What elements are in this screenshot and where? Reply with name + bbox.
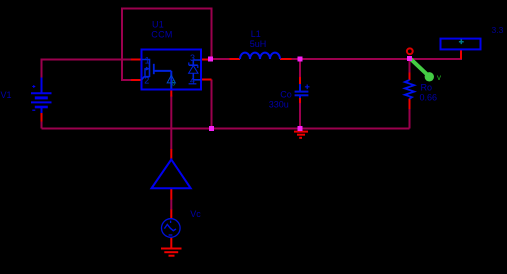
svg-text:Ro: Ro (421, 83, 433, 93)
driver buffer triangle (large) (152, 160, 191, 189)
svg-text:3: 3 (190, 53, 195, 63)
diode D inside U1 (189, 60, 201, 84)
pin stub resistor bottom (409, 99, 411, 110)
ground under Co (294, 132, 308, 138)
node junction dot at Ro top (407, 56, 412, 61)
wire Co branch lower (299, 103, 301, 129)
pin stub capacitor top (299, 77, 301, 85)
gate buffer triangle inside U1 (170, 71, 172, 89)
node junction dot at pin3 / top rail (208, 57, 213, 62)
wire Ro branch upper (409, 59, 411, 74)
wire gate drive from U1 pin5 down to driver triangle (170, 96, 172, 150)
pin stub U1 pin1 (131, 59, 141, 61)
svg-text:4: 4 (190, 75, 195, 85)
pin stub capacitor bottom (299, 97, 301, 103)
pin stub U1 pin3 (201, 59, 210, 61)
svg-text:v: v (437, 73, 441, 82)
node junction dot at Co top (298, 57, 303, 62)
pin stub inductor left (230, 58, 241, 60)
transistor Q inside U1 (MOSFET) (142, 60, 172, 80)
svg-text:CCM: CCM (151, 29, 172, 39)
node junction dot at pin4 / bottom rail (209, 126, 214, 131)
source Vc (pulse source circle) (162, 219, 181, 238)
pin stub V1 bottom (41, 113, 43, 122)
pin stub driver base (170, 189, 172, 200)
wire top rail pin3 to inductor (212, 58, 231, 60)
pin stub U1 pin4 (201, 79, 212, 81)
svg-text:5uH: 5uH (250, 39, 267, 49)
svg-text:0.66: 0.66 (420, 92, 438, 102)
capacitor Co (295, 84, 310, 98)
svg-text:U1: U1 (152, 19, 164, 29)
svg-text:V1: V1 (1, 90, 12, 100)
wire top feedback loop (pin2 to top rail over U1) (122, 9, 212, 81)
svg-text:330u: 330u (269, 99, 289, 109)
voltmeter box (441, 39, 481, 50)
svg-text:Vc: Vc (190, 209, 201, 219)
battery V1 (31, 78, 52, 114)
wire bottom rail (42, 128, 410, 130)
pin stub driver apex (170, 149, 172, 159)
wire top rail inductor to meter corner (291, 58, 461, 59)
wire pin4 down to bottom rail (211, 80, 213, 129)
wire driver output to source Vc (170, 199, 172, 210)
ground under source Vc (161, 249, 182, 256)
pin stub source Vc top (170, 210, 172, 220)
pin stub resistor top (409, 73, 411, 81)
wire V1 bottom to bottom rail (41, 121, 43, 129)
svg-text:L1: L1 (251, 29, 261, 39)
pin stub U1 pin2 (131, 79, 141, 81)
pin stub source Vc bottom to ground (170, 237, 172, 248)
pin stub meter bottom (460, 49, 462, 59)
node output terminal circle (407, 48, 413, 54)
wire Ro branch lower to rail corner (409, 109, 411, 129)
pin stub U1 pin5 (170, 89, 172, 97)
resistor Ro (405, 80, 414, 99)
voltage probe (green) (411, 59, 429, 76)
svg-text:1: 1 (145, 56, 150, 66)
wire V1 top to U1 pin1 (42, 60, 132, 79)
svg-text:2: 2 (144, 76, 149, 86)
pin stub inductor right (280, 58, 292, 60)
op-amp style IC box U1 (142, 50, 202, 90)
svg-text:3.3: 3.3 (492, 25, 504, 35)
svg-text:5: 5 (172, 81, 176, 88)
svg-text:Co: Co (280, 90, 292, 100)
wire Co branch upper (299, 59, 301, 78)
node junction dot at Co bottom (298, 126, 303, 131)
inductor L1 (240, 53, 280, 59)
